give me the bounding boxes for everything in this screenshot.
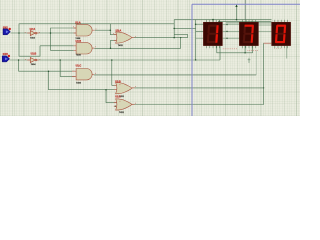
wire top rail 3: [226, 22, 239, 24]
svg-text:U2:B: U2:B: [31, 53, 37, 56]
wire D1 top pin tap 2: [218, 21, 220, 22]
wire side D2-D3 b: [258, 31, 271, 33]
wire side D1-D2 b: [223, 30, 240, 32]
OR gate U3:B: [114, 81, 135, 98]
svg-text:SW1: SW1: [3, 26, 9, 29]
wire vertical at 174: [173, 20, 175, 38]
wire branch OR2 in1: [112, 60, 120, 85]
wire OR3 out long: [135, 104, 264, 106]
logic toggle SW1: [3, 26, 11, 35]
AND gate U1:B: [74, 40, 95, 57]
OR gate U3:A: [114, 29, 134, 47]
wire bus tap vertical: [236, 5, 238, 20]
wire toggle1 to INV1 input: [11, 32, 31, 34]
svg-text:U3:C: U3:C: [115, 96, 121, 99]
svg-text:SW2: SW2: [3, 53, 9, 56]
wire AND1 out: [95, 29, 111, 31]
svg-text:7432: 7432: [118, 44, 124, 47]
svg-text:7404: 7404: [31, 63, 37, 66]
wire branch to OR3 in1: [106, 90, 119, 103]
wire stub below D2: [248, 58, 250, 63]
wire side D1-D2 a: [223, 24, 240, 26]
wire rail A up: [19, 24, 174, 33]
svg-text:U1:C: U1:C: [76, 65, 82, 68]
wire D1 left pin a: [196, 23, 204, 25]
inverter U2:B: [27, 53, 38, 67]
svg-text:7404: 7404: [30, 36, 36, 39]
wire jog 41.7: [180, 38, 182, 49]
wire faint under D3: [286, 46, 288, 59]
wire top rail 1: [174, 19, 271, 21]
wire branch OR1 in2: [111, 40, 116, 48]
wire INV2 out long: [37, 59, 220, 61]
wire AND2 out long: [94, 47, 180, 49]
wire side D1-D2 c: [223, 37, 240, 39]
pin number specks (red): [25, 26, 136, 103]
wire D1 pin down to INV2 net: [219, 46, 221, 60]
wire top rail 2: [218, 20, 272, 22]
wire top dark vertical: [244, 0, 246, 20]
wire branch down to OR2 in2: [49, 71, 120, 90]
wire top rail 3b: [258, 22, 271, 24]
wire branch up to AND1 in1: [51, 28, 77, 33]
wire vertical 110: [110, 24, 116, 35]
svg-text:U1:B: U1:B: [76, 40, 82, 43]
inverter U2:A: [27, 28, 38, 39]
wire toggle2 branch down to AND3 in1: [19, 60, 75, 71]
7seg display D3 showing 0: [272, 22, 291, 45]
wire D1 left pin c: [196, 37, 204, 39]
svg-text:7432: 7432: [119, 111, 125, 114]
bus horizontal top: [192, 3, 300, 5]
display pins (ticks): [207, 20, 288, 48]
wire under D1 right pin: [217, 46, 253, 53]
svg-text:U3:B: U3:B: [115, 81, 121, 84]
bus vertical: [191, 4, 193, 116]
wire stub 34.4: [174, 33, 187, 35]
wire D3 side pin red stub: [264, 42, 272, 44]
OR gate U3:C: [114, 96, 135, 114]
wire D1 left pin b: [196, 31, 204, 33]
wire rail A down branch: [19, 33, 40, 56]
power arrow on bus tap: [235, 5, 237, 7]
AND gate U1:A: [74, 22, 95, 40]
svg-text:7408: 7408: [76, 54, 82, 57]
wire stub to bus 28.7: [174, 27, 195, 29]
wire vertical 263.7: [263, 43, 265, 105]
svg-text:U3:A: U3:A: [116, 29, 122, 32]
wire D1 top pin tap 1: [212, 20, 214, 23]
svg-text:U2:A: U2:A: [30, 28, 36, 31]
AND gate U1:C: [72, 65, 94, 85]
7seg display D1 showing 1: [203, 22, 222, 45]
wire under D2 pin 245: [244, 46, 246, 53]
wire toggle2 to INV2: [10, 59, 31, 61]
wire D2 top pin tap 1: [245, 20, 247, 23]
wire OR1 out: [134, 37, 188, 39]
wire under D2 pin up: [252, 46, 254, 53]
svg-text:7408: 7408: [76, 81, 82, 84]
wire faint vertical up from AND3 net: [255, 50, 257, 75]
svg-text:U1:A: U1:A: [75, 22, 81, 25]
logic toggle SW2: [2, 53, 10, 62]
wire INV1 out to AND1 in2: [37, 32, 76, 34]
wire side D2-D3 a: [258, 24, 271, 26]
7seg display D2 showing 7: [239, 22, 258, 45]
wire to AND2 input 1: [40, 45, 74, 47]
wire branch down to AND2 in2: [51, 33, 74, 50]
wire vertical 195.6: [195, 20, 197, 60]
wire vertical 187.6: [187, 34, 189, 37]
red pin-number rows near displays: [223, 48, 281, 50]
wire OR2 out long: [135, 87, 264, 89]
wire branch AND3 in2: [60, 60, 74, 76]
wire D2 top pin tap 2: [251, 21, 253, 22]
wire AND3 out long: [94, 74, 256, 76]
